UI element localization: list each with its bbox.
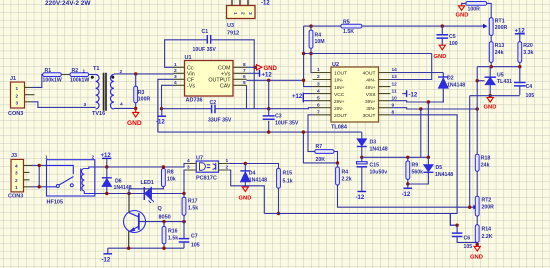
TL431 U5 — [485, 67, 513, 96]
svg-text:2.2K: 2.2K — [482, 234, 493, 240]
svg-text:3: 3 — [187, 165, 190, 171]
svg-text:R17: R17 — [188, 199, 198, 205]
node emitter — [127, 247, 130, 250]
svg-text:10UF 35V: 10UF 35V — [193, 47, 217, 53]
base wire Q to R16/R17 — [139, 221, 186, 223]
svg-text:LED1: LED1 — [141, 180, 154, 186]
capacitor C3 10UF 35V — [263, 109, 299, 133]
node J3 tie bottom — [38, 185, 41, 188]
node R16 bottom rail — [162, 247, 165, 250]
node R20 bottom — [518, 65, 521, 68]
node OUTPUT joins pin3 drop — [302, 79, 305, 82]
ground below TL431 — [484, 98, 497, 111]
wire pin13 drop from R4 rail — [390, 54, 431, 80]
wire J3 pin1 to relay — [32, 186, 47, 188]
node D5 top — [427, 156, 430, 159]
svg-text:105: 105 — [526, 93, 535, 99]
wire J3 pin4 to relay — [32, 164, 47, 166]
node R13 bottom — [490, 65, 493, 68]
node J3 tie top — [38, 164, 41, 167]
relay HF105 — [45, 155, 95, 206]
svg-text:VSS: VSS — [366, 92, 377, 98]
svg-text:3: 3 — [15, 170, 18, 176]
wire U2 pin9 3IN- long to right column — [390, 108, 477, 109]
node rail drop — [302, 130, 305, 133]
svg-text:5: 5 — [243, 80, 246, 86]
svg-text:GND: GND — [434, 54, 447, 60]
svg-text:4IN+: 4IN+ — [365, 85, 376, 91]
svg-text:33UF 35V: 33UF 35V — [208, 118, 232, 124]
wire OUTPUT node down to C3 — [268, 80, 270, 108]
svg-text:4OUT: 4OUT — [362, 71, 375, 77]
node pin10 net drop — [427, 100, 430, 103]
svg-text:20K: 20K — [316, 157, 326, 163]
svg-text:1: 1 — [16, 86, 19, 92]
emitter rail — [108, 247, 184, 249]
potentiometer RT1 200R — [489, 18, 507, 42]
svg-text:GND: GND — [239, 196, 252, 202]
svg-text:1N4148: 1N4148 — [435, 172, 453, 178]
svg-text:5: 5 — [317, 95, 320, 101]
svg-text:-12: -12 — [102, 258, 111, 264]
svg-text:3: 3 — [317, 81, 320, 87]
svg-text:HF105: HF105 — [47, 200, 64, 206]
node TL431 ref tap — [476, 79, 479, 82]
wire J1 pin3 to T1 bottom — [32, 102, 96, 108]
wire R5 node down through OUTPUT wire to U2 pin3 — [304, 26, 313, 87]
svg-text:11: 11 — [392, 88, 397, 94]
svg-text:8050: 8050 — [159, 215, 171, 221]
svg-text:1N4148: 1N4148 — [249, 178, 267, 184]
left winding — [96, 75, 99, 110]
phase dots — [91, 76, 94, 79]
diode D2 1N4148 — [438, 73, 465, 103]
svg-text:100k1W: 100k1W — [70, 78, 89, 84]
svg-text:-12: -12 — [402, 192, 411, 198]
node R9 bottom / D5 return — [406, 182, 409, 185]
svg-text:3: 3 — [84, 102, 87, 108]
svg-text:C4: C4 — [526, 84, 533, 90]
svg-text:J3: J3 — [11, 153, 17, 159]
node R14/C6 bottom — [476, 243, 479, 246]
wire relay coil bottom / D6 / collector / LED1 — [95, 193, 145, 195]
node +12/D6 top — [105, 165, 108, 168]
cathode rail R13/R20 — [477, 66, 520, 68]
svg-text:10M: 10M — [315, 39, 325, 45]
svg-text:4: 4 — [15, 163, 18, 169]
resistor R17 1.5k — [182, 194, 198, 222]
svg-text:T1: T1 — [93, 66, 99, 72]
svg-text:TL084: TL084 — [331, 125, 348, 131]
coil — [80, 169, 82, 192]
svg-text:-12: -12 — [261, 1, 270, 7]
svg-text:24k: 24k — [481, 163, 490, 169]
wire D5 cathode to R9 bottom — [408, 172, 429, 184]
wire 1OUT node rail (top) — [304, 25, 341, 27]
node R4 bottom — [309, 52, 312, 55]
wire relay coil top to U7 pin4 — [95, 164, 187, 168]
svg-text:R14: R14 — [482, 227, 492, 233]
svg-text:2: 2 — [317, 74, 320, 80]
node D3/C15 — [360, 156, 363, 159]
svg-text:+12: +12 — [292, 94, 303, 100]
wire U2 pin7 2OUT down to R7 — [308, 115, 315, 152]
resistor R15 5.1k — [277, 168, 293, 213]
svg-text:AD736: AD736 — [186, 98, 203, 104]
tie bar J3 contacts — [38, 165, 40, 186]
wire gnd-rail down to RT2 wiper rail — [469, 96, 471, 208]
node R9 top — [406, 156, 409, 159]
wire ref column (rail to pin9 wire) — [476, 67, 478, 155]
svg-text:1.5K: 1.5K — [343, 29, 354, 35]
node R17 bottom — [182, 220, 185, 223]
svg-text:R16: R16 — [168, 229, 178, 235]
svg-text:C3: C3 — [275, 114, 282, 120]
wire LED1 to U7 pin3 drop — [152, 193, 184, 195]
node -12 rail left — [160, 107, 163, 110]
svg-text:1OUT: 1OUT — [334, 71, 347, 77]
ground at R21 left — [456, 6, 469, 19]
capacitor C5 100 — [437, 26, 458, 47]
wire pin10 node down to D5 node — [427, 102, 429, 157]
wire T1 pin2 to U1 Vin — [114, 73, 174, 75]
wire U2 pin8 3OUT right then down to C6 — [390, 115, 457, 225]
gnd rail TL431/C4 bottom — [470, 95, 520, 97]
svg-text:VCC: VCC — [334, 92, 345, 98]
svg-text:4: 4 — [187, 158, 190, 164]
diode D6 1N4148 — [102, 167, 132, 194]
svg-text:10k: 10k — [167, 177, 176, 183]
ground below R14 — [470, 242, 483, 260]
right winding — [110, 75, 113, 110]
svg-text:4IN-: 4IN- — [366, 78, 376, 84]
U2 pin numbers left 1-7 — [317, 67, 320, 115]
wire pin8 to GND arrow — [247, 66, 257, 68]
svg-text:24k: 24k — [495, 50, 504, 56]
node pin9 joins right column — [476, 107, 479, 110]
svg-text:D3: D3 — [370, 140, 377, 146]
svg-text:1IN+: 1IN+ — [334, 85, 345, 91]
wire ref tap to TL431 — [477, 80, 484, 82]
svg-text:R9: R9 — [412, 163, 419, 169]
J1 pin stubs — [25, 87, 35, 101]
svg-text:105: 105 — [191, 243, 200, 249]
svg-text:D2: D2 — [447, 76, 454, 82]
svg-text:2IN+: 2IN+ — [334, 99, 345, 105]
power +12 above relay wire — [101, 153, 112, 167]
potentiometer RT2 200R — [475, 196, 494, 225]
svg-text:D4: D4 — [249, 171, 256, 177]
svg-text:R4: R4 — [315, 33, 322, 39]
node pin8 drop joins C6 line — [455, 224, 458, 227]
wire U7 pin3 down — [184, 170, 187, 194]
U7 pin stubs — [187, 164, 229, 171]
power -12 below emitter rail — [102, 248, 113, 263]
regulator U3 7912 — [227, 0, 256, 37]
power -12 below R9 — [402, 184, 413, 198]
svg-text:1N4148: 1N4148 — [447, 83, 465, 89]
svg-text:3IN-: 3IN- — [366, 106, 376, 112]
node Q collector — [127, 192, 130, 195]
svg-text:CON3: CON3 — [8, 194, 23, 200]
svg-text:2: 2 — [16, 93, 19, 99]
U2 pin numbers right 14-8 — [392, 67, 398, 115]
svg-text:GND: GND — [484, 105, 497, 111]
power -12 (below rail) — [156, 109, 166, 126]
svg-text:2: 2 — [174, 68, 177, 74]
svg-text:TL431: TL431 — [497, 79, 512, 85]
svg-text:R4: R4 — [342, 170, 349, 176]
svg-text:3: 3 — [174, 74, 177, 80]
capacitor C15 10u50v — [357, 157, 388, 191]
svg-text:R3: R3 — [138, 90, 145, 96]
svg-text:TV16: TV16 — [92, 111, 105, 117]
svg-text:1: 1 — [174, 62, 177, 68]
svg-text:C5: C5 — [449, 34, 456, 40]
node wiper rail / gnd-column — [468, 206, 471, 209]
svg-text:7: 7 — [243, 68, 246, 74]
core — [104, 73, 106, 111]
svg-text:GND: GND — [127, 120, 142, 127]
transistor Q 8050 — [124, 194, 171, 249]
wire U7 pin2 jog down right — [228, 170, 264, 214]
ground below D4 — [239, 187, 252, 202]
power -12 at U2 pin11 — [402, 90, 418, 98]
svg-text:1: 1 — [83, 69, 86, 75]
svg-text:C15: C15 — [370, 163, 380, 169]
ground below C5 — [434, 45, 447, 60]
svg-text:2OUT: 2OUT — [334, 113, 347, 119]
svg-text:5.1k: 5.1k — [283, 179, 293, 185]
svg-text:CON3: CON3 — [8, 111, 23, 117]
svg-text:PC817C: PC817C — [196, 176, 217, 182]
wire U1 pin6 OUTPUT to U2 — [247, 79, 304, 81]
R4 bottom rail to pin13 drop — [304, 53, 432, 55]
wire pin9 drop down to D3 wire — [420, 109, 422, 157]
contact — [56, 185, 59, 188]
optocoupler U7 PC817C — [196, 156, 219, 182]
svg-text:220V:24V-2 2W: 220V:24V-2 2W — [45, 0, 91, 7]
svg-text:4: 4 — [120, 102, 123, 108]
wire U2 pin1 up to R4 bottom rail — [311, 54, 313, 73]
svg-text:R18: R18 — [481, 156, 491, 162]
resistor R13 24k — [489, 42, 504, 67]
svg-text:1.5k: 1.5k — [168, 236, 178, 242]
svg-text:U3: U3 — [227, 23, 234, 29]
wire bottom rail drop to R6 top — [303, 132, 337, 163]
svg-text:C6: C6 — [464, 236, 471, 242]
svg-text:10u50v: 10u50v — [370, 170, 388, 176]
resistor R6 2.2k — [336, 163, 352, 191]
svg-text:100k1W: 100k1W — [43, 78, 62, 84]
svg-text:10UF 35V: 10UF 35V — [275, 121, 299, 127]
svg-text:4: 4 — [174, 80, 177, 86]
svg-text:Q: Q — [158, 206, 163, 212]
wire rail to U2 pin6 — [269, 108, 313, 109]
wire R2 to T1 — [89, 74, 96, 76]
op-amp U1 AD736 — [185, 55, 234, 104]
node R4 top — [309, 24, 312, 27]
svg-text:1: 1 — [226, 158, 229, 164]
resistor R4 10M — [309, 26, 324, 53]
svg-text:3IN+: 3IN+ — [365, 99, 376, 105]
svg-text:6: 6 — [317, 102, 320, 108]
node pin3/R17 top — [182, 192, 185, 195]
diode D4 1N4148 — [240, 164, 267, 187]
-12 rail C2 to C1 drop and CAV drop — [215, 108, 269, 110]
power +12 at U1 pin7 — [247, 70, 273, 79]
svg-text:GND: GND — [456, 13, 469, 19]
wire R1-R2 — [61, 74, 70, 76]
resistor R18 24k — [475, 154, 490, 196]
node R3 bottom — [134, 107, 137, 110]
U2 pin stubs left — [313, 73, 331, 115]
J3 pin stubs — [24, 165, 32, 186]
diode D5 1N4148 — [423, 157, 453, 178]
resistor R21 100K (top, clipped) — [462, 2, 492, 18]
svg-text:6: 6 — [243, 74, 246, 80]
svg-text:GND: GND — [264, 66, 278, 72]
node T1-R3 top — [134, 72, 137, 75]
LED LED1 — [141, 180, 155, 203]
svg-text:8: 8 — [243, 62, 246, 68]
svg-text:R20: R20 — [523, 43, 533, 49]
wire R8 bottom to Q collector — [129, 187, 163, 189]
U2 pin stubs right — [379, 73, 391, 115]
wire U2 pin10 3IN+ to D2 anode — [390, 101, 443, 102]
diode D3 1N4148 — [357, 132, 388, 157]
bottom rail pin2/R15 to C6 — [264, 214, 457, 226]
node R8 top — [162, 165, 165, 168]
node R15 bottom on rail — [277, 212, 280, 215]
svg-text:2: 2 — [15, 178, 18, 184]
resistor R20 5.1k — [518, 42, 534, 67]
U1 pin stubs left — [174, 67, 185, 85]
svg-text:1: 1 — [317, 67, 320, 73]
node D6 bottom — [105, 192, 108, 195]
svg-text:D6: D6 — [115, 179, 122, 185]
wire U1 pin3 Cf down to bottom rail — [158, 79, 174, 132]
svg-text:1: 1 — [232, 12, 238, 15]
resistor R7 20K — [308, 144, 338, 163]
node GND at U1 pin8 — [253, 66, 256, 69]
svg-text:100R: 100R — [138, 97, 151, 103]
svg-text:100R: 100R — [468, 7, 481, 13]
node R6 top — [336, 161, 339, 164]
U1 pin stubs right — [233, 67, 247, 85]
wiper rail R6 bottom to RT2 arrow — [338, 191, 475, 208]
ground below R3 — [127, 108, 142, 127]
svg-text:C1: C1 — [202, 29, 209, 35]
resistor R14 2.2K — [475, 225, 492, 243]
svg-text:2.2k: 2.2k — [342, 177, 352, 183]
resistor R1 100k 1W — [43, 68, 62, 84]
resistor R16 1.5k — [162, 222, 178, 249]
svg-text:R8: R8 — [167, 170, 174, 176]
svg-text:R13: R13 — [495, 43, 505, 49]
connector J1 — [8, 76, 25, 117]
-12 rail to C2 — [162, 108, 212, 110]
wire J1 pin1 to R1 — [32, 75, 44, 88]
svg-text:CAV: CAV — [220, 83, 231, 89]
RT2 wiper arrow — [473, 205, 478, 210]
svg-text:7: 7 — [317, 110, 320, 116]
svg-text:RT1: RT1 — [495, 19, 505, 25]
capacitor C1 10UF 35V — [193, 29, 217, 53]
node R16 top — [162, 220, 165, 223]
power -12 below C15 — [356, 192, 367, 202]
node OUTPUT/C3 — [267, 79, 270, 82]
wire U1 pin4 -Vs down to -12 rail — [162, 85, 174, 108]
wire C1 left to U1 pin1 — [165, 40, 208, 68]
connector J3 — [8, 153, 24, 200]
svg-text:560k: 560k — [412, 170, 424, 176]
svg-text:J1: J1 — [10, 76, 16, 82]
node C3 top on rail — [267, 107, 270, 110]
svg-text:-12: -12 — [356, 195, 365, 201]
resistor R3 100R — [134, 74, 151, 109]
power GND arrow at U1 pin8 — [257, 65, 278, 72]
svg-text:12: 12 — [392, 81, 398, 87]
svg-text:-12: -12 — [156, 120, 165, 126]
svg-text:-Vs: -Vs — [187, 83, 195, 89]
svg-text:1: 1 — [15, 185, 18, 191]
svg-text:105: 105 — [464, 244, 473, 250]
wire U1 pin5 CAV down to -12 rail — [246, 85, 248, 108]
svg-text:1N4148: 1N4148 — [370, 147, 388, 153]
svg-text:2: 2 — [240, 12, 246, 15]
svg-text:3: 3 — [16, 100, 19, 106]
svg-text:D5: D5 — [436, 165, 443, 171]
node C3 bottom — [267, 130, 270, 133]
transformer T1 TV16 — [91, 66, 115, 117]
power +12 at U2 pin4 and pin5 — [292, 93, 313, 103]
capacitor C6 105 — [452, 225, 478, 250]
node D4 top — [244, 162, 247, 165]
op-amp U2 TL084 — [331, 62, 379, 131]
svg-text:RT2: RT2 — [482, 198, 492, 204]
capacitor C2 33UF 35V — [208, 100, 232, 124]
svg-text:3.3k: 3.3k — [523, 50, 533, 56]
svg-text:C7: C7 — [191, 234, 198, 240]
wire U7 pin1 to R15 top — [228, 164, 278, 169]
svg-text:3OUT: 3OUT — [362, 113, 375, 119]
resistor R2 100k 1W — [70, 68, 89, 84]
svg-text:7912: 7912 — [227, 31, 239, 37]
resistor R5 1.5K — [341, 20, 362, 36]
capacitor C4 105 — [514, 67, 534, 99]
svg-text:+12: +12 — [262, 73, 273, 79]
wire T1 pin4 to GND node — [114, 107, 136, 109]
svg-text:GND: GND — [470, 255, 483, 261]
svg-text:200R: 200R — [482, 205, 495, 211]
node C5 tap — [441, 24, 444, 27]
node TL431 bottom / gnd rail — [489, 94, 492, 97]
node pin9 drop — [419, 107, 422, 110]
power +12 above R20 — [515, 29, 526, 42]
capacitor C7 105 — [179, 222, 200, 249]
wire D3 node to pin10-net drop — [362, 156, 429, 158]
svg-text:200R: 200R — [495, 25, 508, 31]
resistor R8 10k — [162, 167, 176, 187]
svg-text:4: 4 — [317, 88, 320, 94]
resistor R9 560k — [406, 157, 423, 184]
svg-text:-12: -12 — [409, 92, 418, 98]
svg-text:1.5k: 1.5k — [188, 206, 198, 212]
wire R5 right to RT1 wiper arrow — [362, 25, 484, 27]
svg-text:100: 100 — [449, 41, 458, 47]
wire U2 pin14 4OUT to D2 cathode — [390, 72, 443, 74]
